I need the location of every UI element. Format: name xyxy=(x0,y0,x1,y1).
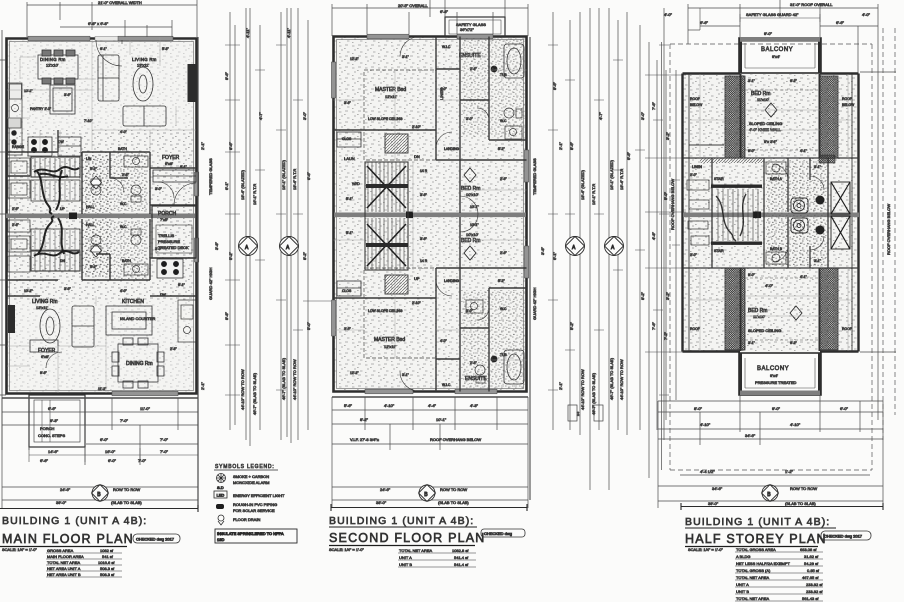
svg-text:16'-1" R.T.R: 16'-1" R.T.R xyxy=(252,184,257,205)
plan 1 dim values B xyxy=(56,487,142,505)
svg-text:2'-10": 2'-10" xyxy=(412,125,421,129)
svg-text:STAIR: STAIR xyxy=(714,177,724,181)
plan 1 kitchen counter lower right xyxy=(178,300,196,342)
plan 3 roof overhang dashed right xyxy=(872,28,895,470)
svg-text:18'-4" (GLAZED): 18'-4" (GLAZED) xyxy=(580,169,585,200)
plan 2 top dim lines xyxy=(332,0,528,36)
plan 2 outer walls xyxy=(334,37,527,392)
plan 2 ensuite tile texture upper xyxy=(462,38,526,138)
scale note mid xyxy=(329,547,364,552)
svg-text:SCALE: 1/4" = 1'-0": SCALE: 1/4" = 1'-0" xyxy=(2,547,37,552)
svg-text:39'-0": 39'-0" xyxy=(708,501,719,506)
plan 1 tv unit lower xyxy=(8,305,15,333)
svg-text:46'-7" (SLAB TO SLAB): 46'-7" (SLAB TO SLAB) xyxy=(609,357,614,400)
svg-text:12'-2": 12'-2" xyxy=(350,371,359,375)
svg-text:6'-0": 6'-0" xyxy=(100,437,109,442)
svg-text:CLOS: CLOS xyxy=(342,289,352,293)
plan 3 outer walls xyxy=(683,74,859,352)
svg-text:2'-6": 2'-6" xyxy=(500,251,508,255)
svg-text:4'-7": 4'-7" xyxy=(258,111,263,120)
plan 2 right wall window lower xyxy=(524,246,528,278)
plan 3 rotated note left xyxy=(670,179,675,230)
svg-text:SAFETY GLASS GUARD 42": SAFETY GLASS GUARD 42" xyxy=(746,12,799,17)
svg-text:7'-6": 7'-6" xyxy=(651,101,656,110)
svg-text:MAIN FLOOR PLAN: MAIN FLOOR PLAN xyxy=(2,532,134,546)
symbols legend title underline xyxy=(214,469,278,471)
plan 1 hall diamond upper xyxy=(91,176,102,189)
scale note right xyxy=(688,547,723,552)
svg-text:SLOPED CEILING: SLOPED CEILING xyxy=(749,121,782,126)
svg-text:9'-3": 9'-3" xyxy=(50,418,59,423)
checked box right xyxy=(821,531,871,540)
svg-text:8'-6": 8'-6" xyxy=(569,141,574,150)
svg-text:GUARD 42" HIGH: GUARD 42" HIGH xyxy=(208,267,213,300)
plan 2 bed rm 2 label upper xyxy=(461,186,480,197)
svg-text:4'-11": 4'-11" xyxy=(245,28,250,38)
plan 1 entry door arc top xyxy=(96,40,122,66)
svg-text:RANGE: RANGE xyxy=(12,145,25,149)
svg-text:4'-0" KNEE WALL: 4'-0" KNEE WALL xyxy=(749,127,782,132)
svg-text:3'-1": 3'-1" xyxy=(814,259,822,263)
svg-text:2'-1": 2'-1" xyxy=(200,141,205,150)
svg-text:233.82 sf: 233.82 sf xyxy=(806,589,823,594)
plan 3 bottom dim lines xyxy=(658,395,883,508)
svg-text:16'-0": 16'-0" xyxy=(105,449,116,454)
svg-text:6'-6": 6'-6" xyxy=(626,151,631,160)
plan 2 thin construction lines xyxy=(334,56,527,360)
plan 1 tv unit xyxy=(188,64,196,102)
plan 1 bottom dim texts xyxy=(40,406,169,463)
plan 3 dashed attic lines lower xyxy=(745,278,820,340)
svg-text:1082.8 sf: 1082.8 sf xyxy=(452,548,469,553)
svg-text:34'-6": 34'-6" xyxy=(745,433,756,438)
plan 3 roof overhang dashed left xyxy=(669,44,671,470)
svg-text:KITCHEN: KITCHEN xyxy=(122,299,144,305)
svg-text:3'-1": 3'-1" xyxy=(402,373,410,377)
cluster 1 rotated dim text D xyxy=(292,359,297,400)
svg-text:TOTAL GROSS (A): TOTAL GROSS (A) xyxy=(736,568,771,573)
svg-text:7'-0": 7'-0" xyxy=(160,449,169,454)
plan 1 party wall band xyxy=(6,213,196,220)
svg-text:NET AREA UNIT A: NET AREA UNIT A xyxy=(47,566,81,571)
checked box left xyxy=(133,534,180,543)
svg-text:3'-6": 3'-6" xyxy=(420,237,428,241)
svg-text:36"x72": 36"x72" xyxy=(460,27,474,32)
plan 3 party wall band xyxy=(683,212,859,219)
svg-text:SCALE: 1/4" = 1'-0": SCALE: 1/4" = 1'-0" xyxy=(329,547,364,552)
plan 1 interior partitions lower xyxy=(7,219,197,296)
plan 2 left wall window upper xyxy=(331,62,335,98)
svg-text:DW: DW xyxy=(58,140,64,144)
svg-text:3'-2": 3'-2" xyxy=(665,131,670,140)
plan 2 ensuite toilet upper xyxy=(504,108,522,118)
area table mid xyxy=(398,548,476,567)
svg-text:3'-6": 3'-6" xyxy=(344,101,352,105)
area table right xyxy=(735,547,823,601)
plan 3 stair cross upper xyxy=(831,182,850,214)
plan 2 master bed label upper xyxy=(375,87,406,99)
svg-text:46'-7" (SLAB TO SLAB): 46'-7" (SLAB TO SLAB) xyxy=(252,372,257,415)
svg-text:ROOF: ROOF xyxy=(690,327,700,331)
svg-text:14'-6": 14'-6" xyxy=(48,449,59,454)
plan 1 stairs lower flight xyxy=(31,229,80,271)
svg-text:UNIT A: UNIT A xyxy=(399,555,412,560)
plan 1 hall tile texture upper xyxy=(82,155,112,213)
cluster 2 tick marks xyxy=(548,45,669,395)
svg-text:8'-2": 8'-2" xyxy=(302,251,307,260)
svg-text:11'-0": 11'-0" xyxy=(140,406,150,411)
svg-text:4'-8": 4'-8" xyxy=(651,231,656,240)
legend rough-in text xyxy=(233,502,277,513)
plan 1 bath tile texture lower xyxy=(114,221,148,279)
svg-text:3'-6": 3'-6" xyxy=(64,287,72,291)
svg-text:2'-8": 2'-8" xyxy=(122,173,130,177)
svg-text:9'x4': 9'x4' xyxy=(770,373,778,378)
plan 1 foyer closet upper xyxy=(153,170,196,198)
svg-text:3'-1": 3'-1" xyxy=(748,79,756,83)
svg-text:CONC. STEPS: CONC. STEPS xyxy=(38,433,65,438)
plan 1 oval chair lower xyxy=(40,309,60,343)
svg-text:ROW TO ROW: ROW TO ROW xyxy=(440,487,467,492)
svg-text:(SLAB TO SLAB): (SLAB TO SLAB) xyxy=(111,500,142,505)
plan 2 bottom dim lines xyxy=(332,397,528,508)
svg-text:TREATED DECK: TREATED DECK xyxy=(158,245,189,250)
svg-text:ROW TO ROW: ROW TO ROW xyxy=(790,486,817,491)
svg-text:4'-10": 4'-10" xyxy=(700,422,711,427)
plan 2 left wall window lower xyxy=(331,300,335,336)
balcony bottom xyxy=(739,353,821,395)
svg-text:39'-0": 39'-0" xyxy=(56,500,67,505)
svg-text:SECOND FLOOR PLAN: SECOND FLOOR PLAN xyxy=(329,531,486,545)
cluster 1 top rotated labels xyxy=(245,28,291,38)
plan 3 drain dot lower xyxy=(816,226,825,235)
svg-text:46'-7" (SLAB TO SLAB): 46'-7" (SLAB TO SLAB) xyxy=(591,372,596,415)
svg-text:683.08 sf: 683.08 sf xyxy=(800,547,817,552)
svg-text:BATH B: BATH B xyxy=(770,247,783,251)
svg-text:PRESSURE: PRESSURE xyxy=(158,239,180,244)
plan 1 living sofa xyxy=(98,55,119,101)
knee wall hatch lower left xyxy=(725,268,745,350)
plan 3 left dim lines xyxy=(649,26,896,478)
title building underline mid xyxy=(329,526,477,528)
title half storey plan xyxy=(685,532,827,546)
svg-text:3'-0": 3'-0" xyxy=(155,247,163,251)
plan 3 top dim lines xyxy=(688,0,878,73)
svg-text:ENERGY EFFICIENT LIGHT: ENERGY EFFICIENT LIGHT xyxy=(233,493,285,498)
svg-text:BUILDING 1 (UNIT A 4B):: BUILDING 1 (UNIT A 4B): xyxy=(329,515,474,527)
plan 1 loveseat xyxy=(123,106,166,126)
plan 2 top window left xyxy=(367,34,409,39)
svg-text:9'-0": 9'-0" xyxy=(764,31,773,36)
svg-text:8'-0": 8'-0" xyxy=(694,406,703,411)
svg-text:W.I.C: W.I.C xyxy=(442,45,451,49)
svg-text:ISLAND COUNTER: ISLAND COUNTER xyxy=(120,316,155,321)
legend floor drain text xyxy=(233,517,260,522)
svg-text:508.3 sf: 508.3 sf xyxy=(100,572,115,577)
svg-text:5'-0": 5'-0" xyxy=(663,191,668,200)
svg-text:10'x10': 10'x10' xyxy=(466,232,479,237)
svg-text:3'-1": 3'-1" xyxy=(402,55,410,59)
symbols legend title xyxy=(215,464,275,470)
svg-text:4'-3": 4'-3" xyxy=(470,403,479,408)
plan 2 stair cross braces xyxy=(366,166,408,266)
plan 3 toilet lower xyxy=(791,218,808,233)
svg-text:13D: 13D xyxy=(217,537,224,542)
plan 2 dim values B xyxy=(376,487,469,505)
svg-text:9'-6": 9'-6" xyxy=(552,81,557,90)
plan 3 stair cross lower xyxy=(831,216,850,249)
svg-text:4'-1": 4'-1" xyxy=(800,149,808,153)
svg-text:DW: DW xyxy=(160,293,166,297)
plan 2 bed rm 2 diamond upper xyxy=(464,168,476,182)
plan 3 bed rm upper diamond xyxy=(765,103,777,117)
svg-text:12'x11': 12'x11' xyxy=(385,94,397,99)
svg-text:6'x8': 6'x8' xyxy=(41,354,49,359)
plan 1 top window right xyxy=(118,36,173,41)
plan 1 roof dim lines xyxy=(2,487,198,500)
svg-text:9'-0": 9'-0" xyxy=(748,149,756,153)
plan 1 thin construction lines xyxy=(7,37,196,393)
svg-text:6'x8': 6'x8' xyxy=(165,161,173,166)
balcony top xyxy=(739,38,821,73)
svg-text:5'-2": 5'-2" xyxy=(569,321,574,330)
plan 1 bath upper fixtures xyxy=(91,156,148,202)
legend light text xyxy=(233,493,285,498)
plan 2 bay label xyxy=(456,22,486,32)
svg-text:20'-5" OVERALL: 20'-5" OVERALL xyxy=(398,3,429,8)
svg-text:ROOF: ROOF xyxy=(842,97,852,101)
svg-text:2'-1": 2'-1" xyxy=(558,381,563,390)
plan 1 foyer closet lower xyxy=(30,340,62,368)
plan 2 interior partitions lower xyxy=(334,217,527,392)
svg-text:7'-2": 7'-2" xyxy=(663,331,668,340)
svg-text:3'-6": 3'-6" xyxy=(64,93,72,97)
plan 1 bottom dim lines xyxy=(2,398,198,508)
svg-text:14 R: 14 R xyxy=(420,259,428,263)
svg-text:DINING Rm: DINING Rm xyxy=(126,361,153,367)
svg-text:BUILDING 1 (UNIT A 4B):: BUILDING 1 (UNIT A 4B): xyxy=(2,515,147,527)
plan 3 bed rm upper label xyxy=(751,91,770,102)
svg-text:5'-2": 5'-2" xyxy=(498,147,506,151)
svg-text:3'-0": 3'-0" xyxy=(302,111,307,120)
svg-text:MASTER Bed: MASTER Bed xyxy=(374,337,405,343)
svg-text:11'x10': 11'x10' xyxy=(753,314,765,319)
plan 2 party wall band xyxy=(334,212,526,219)
plan 1 living rm label xyxy=(132,57,157,68)
plan 1 kitchen island upper xyxy=(50,85,81,156)
svg-text:21'-0" OVERALL WIDTH: 21'-0" OVERALL WIDTH xyxy=(98,0,142,5)
svg-text:7'-0": 7'-0" xyxy=(160,437,169,442)
plan 1 kitchen island lower xyxy=(106,306,152,335)
svg-text:16'-1" (GLAZED): 16'-1" (GLAZED) xyxy=(281,159,286,190)
svg-text:W/D: W/D xyxy=(352,181,360,186)
legend smoke detector symbol xyxy=(217,474,226,491)
svg-text:ROOF OVERHANG BELOW: ROOF OVERHANG BELOW xyxy=(430,437,481,442)
svg-text:31.62 sf: 31.62 sf xyxy=(804,554,819,559)
svg-text:BALCONY: BALCONY xyxy=(761,47,793,53)
balcony top rail xyxy=(740,37,820,42)
balcony top label xyxy=(761,47,793,59)
title second floor plan xyxy=(329,531,486,545)
svg-text:4'-11": 4'-11" xyxy=(286,28,291,38)
svg-text:FOR SOLAR SERVICE: FOR SOLAR SERVICE xyxy=(233,508,275,513)
svg-text:BED Rm: BED Rm xyxy=(461,238,480,244)
plan 3 balcony top dim line xyxy=(700,8,820,30)
svg-text:5'-8": 5'-8" xyxy=(162,47,170,51)
svg-text:9'-6": 9'-6" xyxy=(224,71,229,80)
cluster 1 upper rotated dims xyxy=(228,111,311,330)
svg-text:6'-6": 6'-6" xyxy=(700,20,709,25)
svg-text:0.95 sf: 0.95 sf xyxy=(807,568,820,573)
plan 2 ensuite toilet lower xyxy=(475,365,485,383)
svg-text:PRESSURE TREATED: PRESSURE TREATED xyxy=(755,380,797,385)
plan 2 chase hatch upper xyxy=(385,134,408,153)
svg-text:1082 sf: 1082 sf xyxy=(100,548,114,553)
svg-text:A BLDG: A BLDG xyxy=(736,554,750,559)
svg-text:BALCONY: BALCONY xyxy=(757,366,789,372)
plan 3 thin construction lines xyxy=(689,74,852,351)
svg-text:4'-0": 4'-0" xyxy=(440,339,448,343)
svg-text:LOW SLOPE CEILING: LOW SLOPE CEILING xyxy=(368,117,403,121)
plan 1 porch label upper xyxy=(158,211,189,250)
plan 2 ensuite sink lower xyxy=(466,300,483,313)
svg-text:6'-6": 6'-6" xyxy=(40,458,49,463)
svg-text:24'-6": 24'-6" xyxy=(380,487,391,492)
svg-text:467.65 sf: 467.65 sf xyxy=(802,575,819,580)
plan 3 interior tint xyxy=(683,74,859,352)
plan 3 roof overhang dashed horizontals xyxy=(670,44,872,470)
plan 1 interior tint xyxy=(7,39,195,393)
svg-text:7'-0": 7'-0" xyxy=(120,418,129,423)
title underline mid xyxy=(329,545,475,547)
plan 2 small note texts xyxy=(344,154,420,281)
svg-text:6'-2": 6'-2" xyxy=(790,341,798,345)
svg-text:541 sf: 541 sf xyxy=(102,554,114,559)
svg-text:5'-1": 5'-1" xyxy=(346,231,354,235)
svg-text:7'-6": 7'-6" xyxy=(651,321,656,330)
plan 1 right wall window upper xyxy=(194,172,198,196)
plan 1 interior partitions upper xyxy=(7,130,197,214)
svg-text:FLOOR DRAIN: FLOOR DRAIN xyxy=(233,517,260,522)
plan 2 master bed dashed ceiling lower xyxy=(364,268,436,358)
svg-text:4'-0": 4'-0" xyxy=(440,87,448,91)
title underline left xyxy=(0,546,127,548)
svg-text:2'-1": 2'-1" xyxy=(558,141,563,150)
svg-text:541.4 sf: 541.4 sf xyxy=(454,555,469,560)
plan 3 closet rod bars xyxy=(711,185,762,245)
svg-text:DINING Rm: DINING Rm xyxy=(40,57,66,62)
svg-text:9'-0": 9'-0" xyxy=(748,273,756,277)
svg-text:6'-2": 6'-2" xyxy=(790,79,798,83)
plan 1 lower porch label xyxy=(38,426,65,438)
cluster 2 rotated dim text A xyxy=(580,369,585,410)
plan 2 top window right xyxy=(457,34,493,39)
plan 2 linen label xyxy=(439,88,444,100)
svg-text:5'-2": 5'-2" xyxy=(90,265,98,269)
svg-text:6'-0": 6'-0" xyxy=(840,406,849,411)
cluster 2 upper rotated dims xyxy=(569,111,668,340)
plan 1 range upper xyxy=(28,137,52,156)
plan 2 bed rm 2 diamond lower xyxy=(464,246,476,260)
svg-text:2-0: 2-0 xyxy=(576,411,580,416)
plan 1 bottom window xyxy=(112,391,178,396)
plan 2 stairs treads xyxy=(365,162,408,270)
svg-text:6'-1": 6'-1" xyxy=(180,165,188,169)
svg-text:6'-8" x 6'-8": 6'-8" x 6'-8" xyxy=(88,21,109,26)
svg-text:10'-1": 10'-1" xyxy=(436,417,447,422)
svg-text:MONOXIDE ALARM: MONOXIDE ALARM xyxy=(233,480,269,485)
plan 3 bottom dim texts xyxy=(694,406,849,438)
plan 3 scattered annotations xyxy=(690,79,855,345)
plan 3 mid tile texture xyxy=(766,160,826,266)
svg-text:6'-1": 6'-1" xyxy=(178,283,186,287)
svg-text:LIN: LIN xyxy=(86,157,92,161)
plan 1 dining table lower xyxy=(112,338,164,388)
plan 3 stair treads center xyxy=(718,189,758,241)
svg-text:44'-10" ROW TO ROW: 44'-10" ROW TO ROW xyxy=(619,359,624,400)
svg-text:TOTAL NET AREA: TOTAL NET AREA xyxy=(47,560,81,565)
plan 1 kitchen counter upper left xyxy=(8,83,22,155)
svg-text:W.C: W.C xyxy=(120,225,127,229)
plan 1 top dim text xyxy=(88,0,142,26)
svg-text:5'-1": 5'-1" xyxy=(346,197,354,201)
svg-text:508.3 sf: 508.3 sf xyxy=(100,566,115,571)
knee wall hatch upper right xyxy=(820,76,838,158)
svg-text:W.C: W.C xyxy=(120,202,127,206)
svg-text:2'-6": 2'-6" xyxy=(12,223,20,227)
plan 1 oval chair xyxy=(133,67,153,101)
svg-text:4'-4": 4'-4" xyxy=(428,403,437,408)
plan 3 corner hatch upper right xyxy=(819,155,835,163)
plan 1 lower stub dims xyxy=(29,448,198,462)
svg-text:LED: LED xyxy=(217,493,225,498)
plan 2 bed rm 2 label lower xyxy=(461,232,480,244)
svg-text:16'-1" (GLAZED): 16'-1" (GLAZED) xyxy=(609,159,614,190)
svg-text:13'x11': 13'x11' xyxy=(36,305,48,310)
svg-text:5'-2": 5'-2" xyxy=(498,279,506,283)
cluster 2 stub boxes xyxy=(568,405,603,421)
section marker A3 xyxy=(566,237,585,256)
plan 3 mid partitions xyxy=(683,158,859,268)
svg-text:4'-7": 4'-7" xyxy=(598,111,603,120)
plan 2 roof dim lines xyxy=(332,487,528,500)
plan 1 lower stub texts xyxy=(48,449,169,454)
svg-text:7'x5': 7'x5' xyxy=(160,217,168,222)
svg-text:6'-6": 6'-6" xyxy=(836,20,845,25)
plan 2 interior partitions upper xyxy=(334,37,527,214)
svg-text:9'x 3'4": 9'x 3'4" xyxy=(764,139,777,144)
plan 3 top small texts xyxy=(664,12,871,17)
plan 1 bath tile texture upper xyxy=(114,153,148,211)
plan 1 bath lower fixtures xyxy=(91,229,148,275)
plan 1 stair scribble lower xyxy=(34,216,79,256)
balcony bottom label xyxy=(755,366,797,385)
svg-text:CHECKED dwg: CHECKED dwg xyxy=(484,531,512,536)
plan 2 top bay projection xyxy=(445,17,505,37)
plan 2 bottom dim texts xyxy=(344,403,481,442)
svg-text:18'-4" R.T.R: 18'-4" R.T.R xyxy=(292,169,297,190)
svg-text:ROOF OVERHANG BELOW: ROOF OVERHANG BELOW xyxy=(670,179,675,230)
cluster 1 vertical dim lines xyxy=(198,8,308,508)
svg-text:BELOW: BELOW xyxy=(842,103,855,107)
plan 3 bed rm lower label xyxy=(748,308,767,319)
svg-text:5'-2": 5'-2" xyxy=(90,167,98,171)
title rule plan 3 xyxy=(681,503,883,510)
plan 2 ensuite sink upper xyxy=(505,126,522,139)
plan 1 porch upper xyxy=(152,206,196,258)
knee wall hatch upper left xyxy=(725,76,745,158)
svg-text:54.29 sf: 54.29 sf xyxy=(804,561,819,566)
